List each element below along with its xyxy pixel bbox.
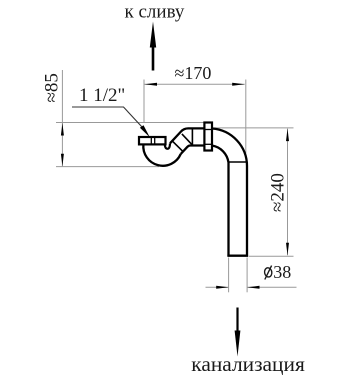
dimension ∅38: right tail with left-pointing arrow xyxy=(247,286,297,288)
dimension ≈170: arrow right xyxy=(232,83,245,86)
dimension ≈240: bottom extension line xyxy=(249,255,294,257)
label 1 1/2": leader line xyxy=(72,107,142,127)
trap bowl (fill) xyxy=(143,144,180,165)
inlet nut divider lines xyxy=(150,137,152,144)
outlet pipe bottom edge, inner elbow arc, left edge xyxy=(212,146,229,257)
union nut xyxy=(204,123,212,151)
flow arrow down (sewer) xyxy=(235,308,241,357)
inlet coupling nut xyxy=(139,137,166,144)
dimension ≈85: rotated text xyxy=(41,73,62,102)
svg-text:1 1/2": 1 1/2" xyxy=(79,85,125,106)
dimension ∅38: diameter symbol xyxy=(264,266,273,280)
svg-text:канализация: канализация xyxy=(191,352,305,376)
riser joint line 2 xyxy=(182,134,193,145)
trap bowl (outer arc) xyxy=(143,144,180,165)
dimension ≈85: dimension line xyxy=(61,70,63,166)
dimension ≈170: arrow left xyxy=(145,83,158,86)
svg-text:≈240: ≈240 xyxy=(268,173,289,212)
trap bowl hook (inlet inner wall) xyxy=(165,143,170,149)
dimension ≈240: dimension line xyxy=(287,129,289,256)
outlet pipe body (white fill): horizontal run, elbow, vertical pipe xyxy=(212,129,247,257)
dimension ≈240: arrow down xyxy=(286,243,289,256)
dimension ∅38: left tail with right-pointing arrow xyxy=(206,286,229,288)
riser tube body (white fill) xyxy=(170,128,205,154)
dimension ≈85: arrow down xyxy=(61,154,64,167)
dimension ≈85: top extension line xyxy=(56,122,204,124)
riser joint line 1 xyxy=(172,141,183,152)
flow arrow up (to drain) xyxy=(150,22,156,71)
svg-text:≈85: ≈85 xyxy=(41,73,62,102)
dimension ≈85: bottom extension line xyxy=(56,166,159,168)
riser tube lower edge xyxy=(181,146,205,155)
label 1 1/2": leader arrowhead xyxy=(140,125,150,137)
riser tube upper edge xyxy=(170,128,205,143)
svg-text:к сливу: к сливу xyxy=(125,2,185,23)
dimension ∅38: right extension line xyxy=(246,258,248,293)
outlet pipe top edge and outer elbow arc and right edge xyxy=(212,129,247,257)
dimension ≈240: top extension line xyxy=(213,127,294,129)
dimension ≈170: dimension line xyxy=(145,83,245,85)
union nut divider lines xyxy=(204,129,212,131)
dimension ≈240: arrow up xyxy=(286,129,289,142)
dimension ≈170: left extension line xyxy=(143,80,145,123)
dimension ≈240: rotated text xyxy=(268,173,289,212)
pipe bottom cap xyxy=(227,254,248,256)
dimension ≈170: right extension line xyxy=(245,80,247,154)
svg-text:38: 38 xyxy=(273,262,291,282)
svg-text:≈170: ≈170 xyxy=(175,63,212,83)
dimension ∅38: left extension line xyxy=(228,258,230,293)
dimension ≈85: arrow up xyxy=(61,123,64,136)
joint line across vertical pipe xyxy=(229,161,248,163)
joint line vertical after elbow xyxy=(191,128,193,145)
